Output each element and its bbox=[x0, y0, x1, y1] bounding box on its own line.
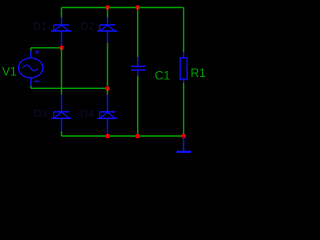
V1 plus polarity mark bbox=[35, 51, 39, 54]
wire V1 plus to node A bbox=[31, 47, 62, 49]
wire D2 bottom lead bbox=[107, 31, 109, 88]
voltage source V1 bbox=[19, 58, 43, 78]
wire C1 bottom lead bbox=[137, 70, 139, 136]
wire node A down to D3 (crosses mid rail, no junction) bbox=[61, 48, 63, 112]
wire D1 bottom lead bbox=[61, 31, 63, 48]
diode D2 bbox=[97, 25, 117, 31]
diode D4 bbox=[97, 112, 117, 119]
capacitor C1 bbox=[131, 66, 145, 70]
diode D3 bbox=[51, 112, 71, 119]
wire node B down to D4 bbox=[107, 89, 109, 112]
wire top rail bbox=[62, 7, 184, 9]
node dot: top rail at D2 column bbox=[105, 5, 110, 10]
node dot: bottom rail at C1 column bbox=[135, 134, 140, 139]
resistor R1 bbox=[180, 58, 187, 79]
wire V1 bottom stub bbox=[30, 78, 32, 89]
wire bottom rail bbox=[62, 135, 184, 137]
ground bbox=[177, 136, 191, 152]
node A junction dot bbox=[59, 46, 64, 51]
svg-text:D1: D1 bbox=[33, 21, 47, 33]
svg-text:D2: D2 bbox=[81, 21, 95, 33]
svg-text:D3: D3 bbox=[34, 108, 48, 120]
wire D1 top lead bbox=[61, 8, 63, 25]
svg-text:V1: V1 bbox=[2, 65, 17, 79]
wire D4 bottom lead bbox=[107, 118, 109, 136]
node dot: top rail at C1 column bbox=[135, 5, 140, 10]
wire C1 top lead bbox=[137, 8, 139, 67]
V1 minus polarity mark bbox=[34, 80, 39, 82]
node dot: bottom rail at ground bbox=[181, 134, 186, 139]
wire D3 bottom lead bbox=[61, 118, 63, 136]
node B junction dot bbox=[105, 86, 110, 91]
svg-text:C1: C1 bbox=[155, 69, 171, 83]
wire V1 top stub bbox=[30, 48, 32, 58]
svg-text:R1: R1 bbox=[191, 66, 207, 80]
wire D2 top lead bbox=[107, 8, 109, 25]
diode D1 bbox=[51, 25, 71, 31]
wire R1 top lead bbox=[183, 8, 185, 58]
wire mid rail (V1 minus to node B) bbox=[31, 87, 108, 89]
wire R1 bottom lead bbox=[183, 79, 185, 136]
svg-text:D4: D4 bbox=[80, 108, 94, 120]
node dot: bottom rail at D4 column bbox=[105, 134, 110, 139]
